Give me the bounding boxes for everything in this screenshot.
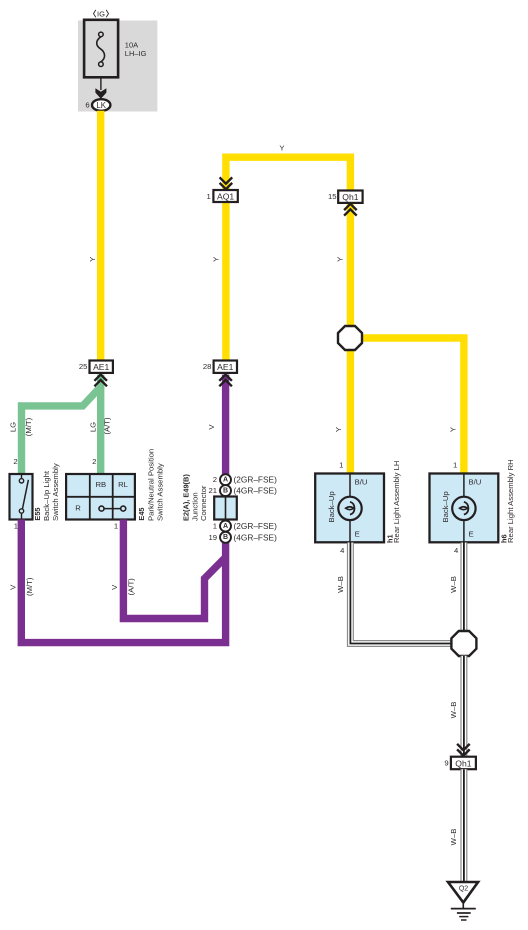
wire W-B from rear light LH to splice <box>350 543 451 644</box>
svg-text:10A: 10A <box>125 40 138 49</box>
svg-text:B: B <box>223 488 228 495</box>
svg-text:E45: E45 <box>137 507 146 520</box>
splice octagon <box>338 326 362 350</box>
svg-text:V: V <box>8 584 17 590</box>
rear light assembly RH h6 <box>430 474 499 543</box>
wire LG from AE1 25 down to E45 <box>97 375 104 475</box>
svg-text:B/U: B/U <box>355 477 368 486</box>
arrow into Qh1 9 <box>457 744 470 756</box>
svg-text:E2(A), E49(B): E2(A), E49(B) <box>182 474 191 521</box>
svg-text:Qh1: Qh1 <box>455 758 471 768</box>
svg-text:Q2: Q2 <box>459 885 468 892</box>
svg-text:V: V <box>110 584 119 590</box>
svg-text:A: A <box>223 477 228 484</box>
connector AQ1 <box>213 190 237 202</box>
wire fuse to connector <box>100 77 102 90</box>
svg-text:Switch Assembly: Switch Assembly <box>51 463 60 521</box>
svg-text:1: 1 <box>14 522 18 531</box>
svg-text:28: 28 <box>203 362 212 371</box>
svg-text:Rear Light Assembly LH: Rear Light Assembly LH <box>392 461 401 543</box>
wire V M/T from E55 to splice run <box>21 520 225 643</box>
svg-text:AQ1: AQ1 <box>217 191 234 201</box>
wire Y main vertical (IG to AE1 25) <box>97 111 104 361</box>
svg-text:Park/Neutral Position: Park/Neutral Position <box>147 449 156 521</box>
svg-text:1: 1 <box>114 522 118 531</box>
wire V A/T from E45 joining main run <box>123 520 225 619</box>
svg-text:IG: IG <box>97 9 105 18</box>
svg-text:4: 4 <box>454 546 459 555</box>
svg-text:(A/T): (A/T) <box>103 417 112 435</box>
svg-text:LG: LG <box>9 422 18 432</box>
connector Qh1 (15) <box>338 191 362 203</box>
svg-text:2: 2 <box>213 475 217 484</box>
junction connector E2(A) E49(B) <box>214 474 237 543</box>
svg-text:Y: Y <box>336 257 345 262</box>
svg-text:Y: Y <box>334 427 343 432</box>
svg-text:LG: LG <box>88 422 97 432</box>
svg-text:(4GR–FSE): (4GR–FSE) <box>234 532 278 542</box>
svg-text:B/U: B/U <box>469 477 482 486</box>
svg-text:LK: LK <box>96 101 106 110</box>
wire Y splice branch to rear light RH <box>361 338 464 474</box>
wire W-B from rear light RH to splice <box>460 543 467 632</box>
svg-text:W–B: W–B <box>449 829 458 846</box>
svg-text:Back–Up: Back–Up <box>441 491 450 522</box>
arrow out of AE1 28 <box>219 375 232 387</box>
svg-text:Back–Up: Back–Up <box>327 491 336 522</box>
svg-text:19: 19 <box>208 533 217 542</box>
svg-text:E: E <box>469 529 474 538</box>
svg-text:1: 1 <box>207 192 211 201</box>
svg-text:Rear Light Assembly RH: Rear Light Assembly RH <box>506 459 515 543</box>
svg-text:(2GR–FSE): (2GR–FSE) <box>234 521 278 531</box>
arrow into AQ1 <box>220 177 233 189</box>
svg-text:(M/T): (M/T) <box>25 577 34 596</box>
connector AE1 (25) <box>90 361 113 373</box>
svg-text:Switch Assembly: Switch Assembly <box>156 463 165 521</box>
svg-text:Qh1: Qh1 <box>342 192 358 202</box>
wire V from AE1 28 to junction connector <box>222 375 229 476</box>
arrow out of AE1 25 <box>94 375 107 387</box>
svg-text:21: 21 <box>208 486 217 495</box>
svg-text:15: 15 <box>328 192 337 201</box>
svg-text:1: 1 <box>453 461 457 470</box>
svg-text:Connector: Connector <box>199 485 208 521</box>
svg-text:2: 2 <box>13 457 17 466</box>
svg-text:RL: RL <box>118 480 129 489</box>
svg-text:1: 1 <box>213 522 217 531</box>
svg-text:25: 25 <box>79 362 88 371</box>
svg-text:E55: E55 <box>33 507 42 520</box>
svg-text:LH–IG: LH–IG <box>125 49 147 58</box>
wire W-B splice to Qh1 9 <box>460 656 467 757</box>
splice octagon W-B <box>451 631 476 656</box>
svg-text:W–B: W–B <box>449 576 458 593</box>
svg-text:Y: Y <box>88 257 97 262</box>
svg-text:B: B <box>223 534 228 541</box>
arrow into LK <box>95 88 106 99</box>
switch E45 park/neutral position switch assembly <box>66 474 135 520</box>
wire Y top loop AQ1 to Qh1 <box>226 157 351 190</box>
svg-text:(A/T): (A/T) <box>127 578 136 596</box>
svg-text:(4GR–FSE): (4GR–FSE) <box>234 486 278 496</box>
svg-text:R: R <box>75 504 81 513</box>
svg-text:AE1: AE1 <box>217 362 233 372</box>
svg-text:(2GR–FSE): (2GR–FSE) <box>234 475 278 485</box>
rear light assembly LH h1 <box>315 474 384 543</box>
svg-text:W–B: W–B <box>449 702 458 719</box>
svg-text:RB: RB <box>95 480 106 489</box>
fuse panel gray area <box>78 21 157 112</box>
wire Y AQ1 down to AE1 28 <box>222 202 229 361</box>
svg-text:V: V <box>207 424 216 430</box>
connector Qh1 (9) <box>451 757 476 770</box>
fuse F1 10A LH-IG <box>84 20 118 78</box>
svg-text:1: 1 <box>339 461 343 470</box>
svg-text:AE1: AE1 <box>93 362 109 372</box>
wire Y splice to rear light LH <box>347 349 354 474</box>
switch E55 back-up light switch assembly <box>10 474 33 520</box>
wire LG branch to E55 <box>22 389 100 475</box>
svg-text:Y: Y <box>449 427 458 432</box>
svg-text:6: 6 <box>85 101 89 110</box>
svg-text:9: 9 <box>444 759 448 768</box>
svg-text:Y: Y <box>279 144 284 153</box>
connector LK <box>92 99 110 111</box>
wire W-B Qh1 to ground <box>460 769 467 882</box>
svg-text:E: E <box>355 529 360 538</box>
svg-text:A: A <box>223 523 228 530</box>
arrow into Qh1 <box>344 204 357 216</box>
ground Q2 <box>448 882 478 920</box>
svg-text:4: 4 <box>340 546 345 555</box>
svg-text:Back–Up Light: Back–Up Light <box>42 470 51 521</box>
connector AE1 (28) <box>214 361 237 373</box>
svg-text:(M/T): (M/T) <box>24 417 33 436</box>
wire Y Qh1 down to splice octagon <box>347 203 354 327</box>
svg-text:Y: Y <box>212 257 221 262</box>
svg-text:2: 2 <box>92 457 96 466</box>
svg-text:W–B: W–B <box>336 576 345 593</box>
